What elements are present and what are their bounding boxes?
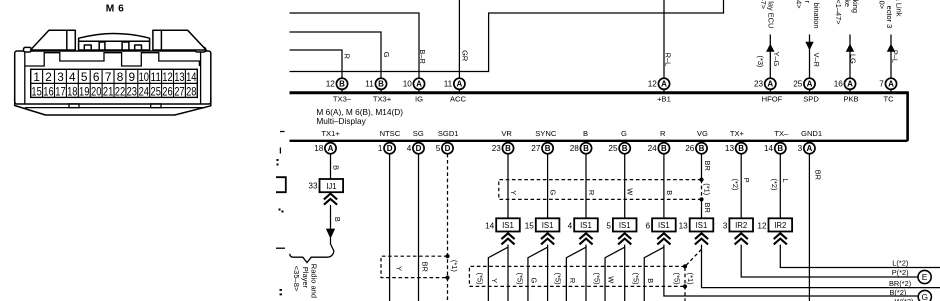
svg-text:7: 7 [105,70,112,84]
svg-text:(*5): (*5) [592,273,601,285]
svg-text:IS1: IS1 [580,221,592,230]
svg-text:A: A [807,144,813,153]
svg-text:BR: BR [420,262,429,272]
junction mark below IS1 [501,233,514,239]
wire TX1+ down to junction IJ1 [330,154,332,179]
wire ACC from top edge [458,0,460,78]
svg-text:R: R [660,129,666,138]
svg-text:G: G [549,189,558,195]
wire shielded-cable drain to top edge [290,0,724,72]
svg-text:BR: BR [703,203,712,213]
wire VG (BR) from pin [701,154,703,180]
svg-text:(*5): (*5) [476,273,485,285]
wire SG down [418,154,420,301]
svg-text:R: R [587,190,596,195]
svg-text:P–L: P–L [891,50,900,63]
svg-text:14: 14 [764,144,774,153]
svg-text:bination: bination [812,3,821,29]
svg-text:5: 5 [606,221,611,230]
svg-text:IR2: IR2 [735,221,747,230]
svg-text:14: 14 [186,70,197,84]
svg-text:Y: Y [395,266,404,271]
junction mark below IR2 [735,233,748,239]
svg-text:(*3): (*3) [756,55,765,67]
connector M6 pin numbers 1-28 [31,70,196,98]
wire W column from pin down to IS1 [624,154,626,219]
junction mark below IS1 [695,233,708,239]
svg-text:a Link: a Link [894,0,903,17]
svg-text:A: A [328,144,334,153]
svg-text:D: D [416,144,422,153]
svg-text:4: 4 [568,221,573,230]
svg-text:A: A [847,80,853,89]
svg-text:Player: Player [301,267,310,289]
junction connector IS1 pin 15 [536,218,560,231]
svg-text:B: B [646,278,655,283]
svg-text:4: 4 [69,70,76,84]
junction node shield-drain top [445,254,449,258]
svg-text:V–R: V–R [812,53,821,67]
svg-text:D: D [387,144,393,153]
svg-text:P: P [742,178,751,183]
wire straight continuation [547,245,549,301]
wire straight continuation [585,245,587,301]
svg-text:11: 11 [365,80,374,89]
wire R column from pin down to IS1 [585,154,587,219]
svg-text:TC: TC [883,94,894,103]
svg-text:24: 24 [648,144,658,153]
svg-text:D: D [445,144,451,153]
page-split brace [290,251,334,262]
svg-text:16: 16 [43,84,54,98]
connector M6 inner walls and castellation [25,52,205,108]
svg-text:VR: VR [501,129,512,138]
connector M6 housing outline [15,30,211,115]
svg-text:B: B [378,80,384,89]
svg-text:3: 3 [723,221,728,230]
svg-text:IS1: IS1 [619,221,631,230]
svg-text:25: 25 [151,84,162,98]
svg-text:B: B [583,129,588,138]
svg-text:12: 12 [757,221,767,230]
connector circle E [918,270,931,283]
svg-text:18: 18 [314,144,324,153]
svg-text:HFOF: HFOF [762,94,783,103]
svg-text:28: 28 [186,84,197,98]
pin 12(A) +B1 on top of unit [663,87,665,92]
svg-text:5: 5 [81,70,88,84]
svg-text:B: B [545,144,551,153]
svg-text:Y: Y [490,278,499,283]
svg-text:B: B [699,144,705,153]
svg-text:(*2): (*2) [770,179,779,191]
svg-text:(*5): (*5) [632,273,641,285]
svg-text:W: W [607,276,616,283]
wire branch diagonal [488,247,508,301]
svg-text:B: B [665,190,674,195]
svg-text:23: 23 [754,80,764,89]
svg-text:8: 8 [117,70,124,84]
svg-text:6: 6 [93,70,100,84]
wire straight continuation [664,245,919,296]
svg-text:–4>: –4> [794,0,803,9]
svg-text:11: 11 [444,80,453,89]
svg-text:L: L [781,178,790,182]
svg-text:21: 21 [103,84,113,98]
svg-text:GND1: GND1 [801,129,822,138]
wire G column from pin down to IS1 [547,154,549,219]
svg-text:28: 28 [570,144,580,153]
wire branch diagonal [644,247,664,301]
svg-text:12: 12 [648,80,658,89]
svg-text:4: 4 [407,144,412,153]
svg-text:16: 16 [834,80,844,89]
svg-text:10: 10 [403,80,413,89]
svg-text:23: 23 [127,84,138,98]
svg-text:15: 15 [525,221,535,230]
arrow to Radio and Player [326,229,335,239]
cut-off marks near bottom bus left edge [280,131,285,133]
svg-text:25: 25 [793,80,803,89]
svg-text:B: B [332,165,341,170]
wire to destination above HFOF [769,35,771,79]
junction node lower shield bottom [683,284,687,288]
wire TX- (L) down to IR2 [779,154,781,219]
svg-text:10>: 10> [878,0,887,9]
svg-text:B–R: B–R [418,49,427,63]
junction connector IS1 pin 13 [690,218,714,231]
svg-text:W: W [626,188,635,195]
svg-text:1: 1 [33,70,40,84]
svg-text:IS1: IS1 [658,221,670,230]
wire VG continues and exits right as BR(*2) [702,245,940,288]
pin 10(A) IG on top of unit [418,87,420,92]
svg-text:R–L: R–L [664,53,673,67]
svg-text:<35–8>: <35–8> [292,266,301,292]
lower shield box around branched RGB wires [469,266,685,286]
wire to destination above TC [890,35,892,79]
svg-text:TX3–: TX3– [333,94,352,103]
svg-text:17: 17 [55,84,65,98]
svg-text:B(*2): B(*2) [889,288,906,297]
connector circle G [918,290,931,301]
svg-text:IJ1: IJ1 [326,182,336,191]
junction mark below IS1 [618,233,631,239]
svg-text:IS1: IS1 [502,221,514,230]
svg-text:13: 13 [174,70,185,84]
cut-off label fragment bottom-left [280,289,283,295]
svg-text:TX–: TX– [774,129,789,138]
svg-text:1: 1 [378,144,383,153]
pin 16(A) PKB on top of unit [849,87,851,92]
svg-text:12: 12 [326,80,336,89]
svg-text:B: B [622,144,628,153]
svg-text:20: 20 [91,84,102,98]
svg-text:BR(*2): BR(*2) [889,279,911,288]
connector M6 pin grid [31,69,198,97]
wire branch diagonal [605,247,625,301]
svg-text:R: R [568,278,577,283]
pin 25(A) SPD on top of unit [809,87,811,92]
svg-text:22: 22 [115,84,125,98]
svg-text:B: B [777,144,783,153]
wire GND1 (BR) straight down [808,154,810,301]
junction connector IS1 pin 14 [496,218,520,231]
svg-text:BR: BR [813,170,822,180]
wire straight continuation [507,245,509,301]
svg-text:Multi–Display: Multi–Display [316,116,366,126]
wire branch diagonal [566,247,586,301]
junction connector IJ1 pin 33 [320,179,344,192]
svg-text:A: A [767,80,773,89]
svg-text:27: 27 [531,144,541,153]
wire from IJ1 to Radio [330,205,332,229]
svg-text:G: G [922,292,929,301]
svg-text:Radio and: Radio and [310,264,319,298]
svg-text:<1–47>: <1–47> [834,0,843,25]
svg-text:9: 9 [129,70,136,84]
svg-text:VG: VG [697,129,708,138]
svg-text:12: 12 [162,70,172,84]
svg-text:SYNC: SYNC [535,129,557,138]
wire NTSC down [389,154,391,301]
svg-text:W(*2): W(*2) [895,297,914,301]
shield drain SGD1 (dashed) [447,154,449,301]
svg-text:(*1): (*1) [703,183,712,195]
wire TX3+ entry from left [290,32,382,78]
svg-text:–7>: –7> [759,0,768,9]
svg-text:IS1: IS1 [696,221,708,230]
svg-text:E: E [922,272,928,282]
svg-text:14: 14 [485,221,495,230]
svg-text:ke: ke [843,0,852,7]
svg-text:G: G [530,277,539,283]
junction node shield top [699,178,703,182]
svg-text:Y–G: Y–G [772,52,781,67]
wire to destination above SPD [809,35,811,79]
svg-text:B: B [738,144,744,153]
pin 11(B) TX3+ on top of unit [380,87,382,92]
shield box around VR/SYNC/B/G/R [499,180,702,200]
svg-text:10: 10 [139,70,150,84]
svg-text:TX1+: TX1+ [321,129,340,138]
svg-text:TX+: TX+ [730,129,745,138]
svg-text:Y: Y [509,190,518,195]
svg-text:(*5): (*5) [673,273,682,285]
wire TX+ (P) down to IR2 [740,154,742,219]
wire L(*2) exits right [780,245,940,268]
svg-text:NTSC: NTSC [380,129,401,138]
svg-text:26: 26 [162,84,173,98]
svg-text:(*2): (*2) [731,179,740,191]
svg-text:BR: BR [703,161,712,171]
junction connector IR2 pin 12 [769,218,793,231]
junction connector IS1 pin 4 [574,218,598,231]
svg-text:M 6: M 6 [106,4,124,15]
svg-text:A: A [807,80,813,89]
svg-text:SGD1: SGD1 [438,129,459,138]
svg-text:26: 26 [685,144,695,153]
svg-text:A: A [457,80,463,89]
svg-text:13: 13 [679,221,689,230]
svg-text:SG: SG [413,129,424,138]
wire P(*2) to connector E [741,245,918,277]
pin 12(B) TX3– on top of unit [341,87,343,92]
junction mark below IJ1 [324,194,337,200]
svg-text:PKB: PKB [843,94,858,103]
svg-text:+B1: +B1 [657,94,671,103]
svg-text:IR2: IR2 [774,221,786,230]
svg-text:3: 3 [57,70,64,84]
svg-text:(*5): (*5) [515,273,524,285]
junction connector IS1 pin 5 [613,218,637,231]
svg-text:15: 15 [31,84,42,98]
svg-text:33: 33 [308,182,318,191]
svg-text:27: 27 [174,84,184,98]
drain diagonal to lower shield box (dashed) [685,249,702,301]
junction node lower shield top [683,264,687,268]
svg-text:25: 25 [608,144,618,153]
svg-text:GR: GR [461,50,470,61]
svg-text:IS1: IS1 [542,221,554,230]
junction node shield-drain bottom [445,276,449,280]
wire IG entry from left [290,13,420,78]
wire to destination above PKB [849,35,851,79]
svg-text:6: 6 [646,221,651,230]
wire VG to IS1 [701,199,703,218]
svg-text:G: G [382,52,391,58]
svg-text:G: G [621,129,627,138]
svg-text:18: 18 [67,84,78,98]
drain segment (dashed) with note (*1) [701,180,703,200]
wire +B1 from top edge [663,0,665,78]
pin 7(A) TC on top of unit [890,87,892,92]
svg-text:19: 19 [79,84,89,98]
svg-text:B: B [505,144,511,153]
svg-text:SPD: SPD [803,94,819,103]
Multi-Display unit box M6(A),M6(B),M14(D) [290,91,908,94]
pin 23(A) HFOF on top of unit [769,87,771,92]
junction node shield bottom [699,197,703,201]
svg-text:A: A [888,80,894,89]
cut-off wire fragment [276,247,285,249]
svg-text:B: B [333,217,342,222]
svg-text:IG: IG [415,94,423,103]
svg-text:R: R [342,54,351,59]
svg-text:LG: LG [849,54,858,64]
svg-text:B: B [583,144,589,153]
pin 11(A) ACC on top of unit [458,87,460,92]
junction mark below IR2 [774,233,787,239]
svg-text:L(*2): L(*2) [892,258,908,267]
svg-text:23: 23 [492,144,502,153]
svg-text:B: B [661,144,667,153]
svg-text:A: A [416,80,422,89]
svg-text:TX3+: TX3+ [373,94,392,103]
cut-off marks left edge [277,159,284,213]
junction mark below IS1 [657,233,670,239]
svg-text:(*5): (*5) [554,273,563,285]
cut-off junction box at left edge [276,177,286,192]
svg-text:ACC: ACC [450,94,467,103]
svg-text:P(*2): P(*2) [892,268,909,277]
svg-text:5: 5 [436,144,441,153]
junction connector IR2 pin 3 [729,218,753,231]
svg-text:3: 3 [798,144,803,153]
shield box around NTSC/SG [381,256,448,277]
junction mark below IS1 [541,233,554,239]
junction connector IS1 pin 6 [652,218,676,231]
svg-text:A: A [661,80,667,89]
wire straight continuation [624,245,626,301]
wire branch diagonal [528,247,548,301]
svg-text:13: 13 [725,144,735,153]
svg-text:7: 7 [879,80,884,89]
svg-text:(*1): (*1) [686,273,695,285]
svg-text:B: B [339,80,345,89]
wire B column from pin down to IS1 [663,154,665,219]
svg-text:2: 2 [45,70,52,84]
svg-text:11: 11 [151,70,161,84]
junction mark below IS1 [579,233,592,239]
svg-text:(*1): (*1) [450,260,459,272]
svg-text:24: 24 [139,84,150,98]
wire TX3- entry from left [290,50,343,78]
wire Y column from pin down to IS1 [507,154,509,219]
